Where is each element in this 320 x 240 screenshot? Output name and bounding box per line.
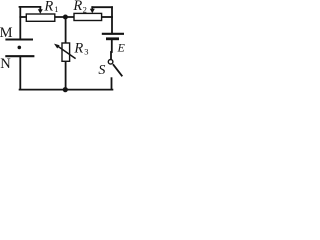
wire left vertical lower (N plate to bottom rail) [19, 57, 21, 90]
wire switch contact stub [111, 78, 113, 89]
switch S blade (open) [113, 64, 122, 76]
wire bottom rail [20, 89, 113, 91]
resistor R3 (variable, vertical box) [62, 43, 70, 61]
wire R2 slider arrow stem [91, 7, 93, 10]
resistor R3 arrowhead [54, 44, 60, 49]
resistor R2 slider arrowhead [90, 9, 95, 14]
resistor R2 (rheostat box) [74, 13, 102, 20]
resistor R1 slider arrowhead [38, 9, 43, 14]
wire right vertical to battery [111, 7, 113, 33]
svg-text:1: 1 [54, 4, 58, 14]
wire R3 branch upper [65, 17, 67, 43]
battery E positive plate (long) [102, 33, 124, 35]
battery E negative plate (short thick) [106, 37, 119, 40]
switch S pivot circle [108, 60, 113, 65]
svg-text:R: R [73, 40, 83, 56]
svg-text:R: R [72, 0, 82, 14]
resistor R1 (rheostat box) [26, 14, 55, 21]
svg-text:R: R [43, 0, 53, 14]
svg-text:3: 3 [84, 47, 88, 57]
wire left vertical upper (M plate to top rail) [19, 7, 21, 39]
wire main rail R1 to R2 [55, 16, 74, 18]
wire top rail to R1 slider arrow [20, 6, 41, 8]
charged particle between plates [18, 46, 22, 50]
svg-text:S: S [98, 63, 105, 78]
wire R1 left lead [20, 16, 26, 18]
wire R2 right lead [102, 16, 112, 18]
node junction bottom (rail / R3) [63, 87, 68, 92]
svg-text:2: 2 [83, 4, 87, 14]
wire battery to switch pivot [111, 40, 113, 52]
capacitor plate N (bottom plate) [5, 55, 34, 57]
wire R3 branch lower [65, 61, 67, 89]
node junction top (rail / R3) [63, 15, 68, 20]
svg-text:N: N [0, 56, 11, 72]
svg-text:M: M [0, 25, 13, 41]
svg-text:E: E [117, 41, 126, 55]
wire R1 slider arrow stem [39, 7, 41, 10]
capacitor plate M (top plate) [5, 39, 33, 41]
wire R2 slider top to right corner [92, 6, 112, 8]
resistor R3 arrow shaft [58, 46, 76, 59]
